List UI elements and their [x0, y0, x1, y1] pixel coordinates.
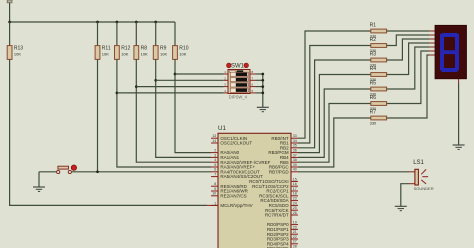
7-segment display showing 8	[435, 25, 467, 79]
wire R9 column to RA pin	[156, 59, 211, 157]
display left pin stubs	[430, 31, 436, 55]
svg-text:R11: R11	[102, 46, 111, 52]
SW1 left pins 1-4	[224, 70, 228, 93]
svg-text:4: 4	[214, 158, 216, 162]
svg-text:10K: 10K	[141, 52, 148, 57]
ground button	[33, 172, 45, 192]
svg-text:25: 25	[293, 206, 297, 210]
switch SW1 label and indicators	[227, 63, 249, 70]
svg-text:6: 6	[214, 168, 216, 172]
svg-text:28: 28	[293, 245, 297, 248]
wire RB2 to R3	[298, 60, 371, 148]
svg-text:R6: R6	[370, 95, 377, 101]
wire RB7 to sounder	[298, 171, 409, 173]
resistor R2 330	[370, 37, 387, 53]
svg-text:R8: R8	[141, 46, 148, 52]
svg-text:R5: R5	[370, 81, 377, 87]
svg-text:35: 35	[293, 144, 297, 148]
svg-text:22: 22	[293, 235, 297, 239]
wire R6 to display pin	[387, 51, 430, 104]
sounder pin stubs	[409, 171, 415, 173]
svg-text:R12: R12	[121, 46, 130, 52]
wire RB6 to R7	[298, 118, 371, 167]
svg-text:R1: R1	[370, 23, 377, 29]
svg-text:10K: 10K	[102, 52, 109, 57]
wire button left to ground	[39, 171, 56, 173]
microcontroller U1 PIC16F877A body	[218, 133, 291, 248]
svg-text:33: 33	[293, 134, 297, 138]
U1 MCLR pin stub	[207, 204, 218, 206]
node junction R10/SW1	[174, 73, 177, 76]
node rail junction at R12	[116, 21, 119, 24]
wire R8 column to RA pin	[136, 59, 211, 162]
wire sounder to ground	[401, 184, 409, 207]
power terminal VCC (cropped at top)	[7, 0, 12, 3]
wire SW1 common rail	[261, 73, 264, 108]
svg-text:R13: R13	[14, 46, 23, 52]
wire R4 to display pin	[387, 43, 430, 75]
U1 left pin stubs and numbers	[211, 134, 218, 205]
wire SW1 row to R12 column	[117, 92, 224, 94]
resistor R11 10K	[95, 22, 111, 59]
resistor R1 330	[370, 23, 387, 39]
svg-text:17: 17	[293, 187, 297, 191]
U1 left pin names	[220, 136, 270, 208]
node junction R8/SW1	[135, 85, 138, 88]
wire R7 to display pin	[387, 55, 430, 118]
svg-text:R9: R9	[160, 46, 167, 52]
svg-text:R7: R7	[370, 110, 377, 116]
SW1 right pins 8-5	[250, 70, 263, 93]
resistor R12 10K	[115, 22, 131, 59]
svg-text:R2: R2	[370, 37, 377, 43]
wire RB3 to R4	[298, 75, 371, 153]
svg-text:OSC2/CLKOUT: OSC2/CLKOUT	[220, 141, 252, 146]
svg-text:24: 24	[293, 201, 297, 205]
svg-text:SW1: SW1	[231, 64, 245, 70]
svg-text:18: 18	[293, 192, 297, 196]
dip switch SW1 DIPSW_4	[228, 70, 250, 100]
resistor R10 10K	[173, 22, 189, 59]
svg-text:13: 13	[212, 134, 216, 138]
display common pin stub	[458, 79, 460, 83]
wire SW1 row to R9 column	[156, 79, 224, 81]
svg-text:15: 15	[293, 177, 297, 181]
svg-text:36: 36	[293, 149, 297, 153]
U1 right pin names	[249, 136, 289, 248]
wire RB4 to R5	[298, 89, 371, 157]
wire R3 to display pin	[387, 39, 430, 60]
svg-text:R10: R10	[179, 46, 188, 52]
wire SW1 row to R8 column	[136, 86, 224, 88]
resistor R8 10K	[134, 22, 148, 59]
svg-text:1: 1	[214, 201, 216, 205]
svg-text:R3: R3	[370, 52, 377, 58]
svg-text:RE2/AN7/CS: RE2/AN7/CS	[220, 193, 246, 198]
wire R11 column down	[97, 59, 99, 171]
node junction button/R11	[96, 170, 99, 173]
resistor R9 10K	[153, 22, 167, 59]
sounder LS1	[413, 160, 434, 191]
wire button to RA4	[72, 171, 211, 173]
wire R5 to display pin	[387, 47, 430, 89]
wire SW1 row to R10 column	[175, 73, 224, 75]
ground sounder	[395, 206, 407, 210]
wire R12 column to RA pin	[117, 59, 211, 167]
svg-text:38: 38	[293, 158, 297, 162]
svg-text:10K: 10K	[14, 52, 21, 57]
wire RB0 to R1	[298, 31, 371, 138]
wire VCC rail	[10, 21, 175, 23]
svg-text:34: 34	[293, 139, 297, 143]
svg-text:16: 16	[293, 182, 297, 186]
svg-text:SOUNDER: SOUNDER	[414, 186, 434, 191]
resistor R13 10K	[7, 22, 23, 59]
resistor R7 330	[370, 110, 387, 126]
resistor R5 330	[370, 81, 387, 97]
node rail junction at R11	[96, 21, 99, 24]
svg-text:330: 330	[370, 120, 377, 125]
svg-text:9: 9	[214, 187, 216, 191]
wire R2 to display pin	[387, 35, 430, 46]
node rail junction at R13	[8, 21, 11, 24]
svg-text:39: 39	[293, 163, 297, 167]
resistor R6 330	[370, 95, 387, 111]
svg-text:37: 37	[293, 153, 297, 157]
resistor R3 330	[370, 52, 387, 68]
svg-text:U1: U1	[218, 125, 226, 132]
svg-text:10K: 10K	[121, 52, 128, 57]
svg-text:21: 21	[293, 230, 297, 234]
svg-text:23: 23	[293, 197, 297, 201]
svg-text:2: 2	[214, 149, 216, 153]
svg-text:3: 3	[214, 153, 216, 157]
svg-text:14: 14	[212, 139, 216, 143]
svg-text:10K: 10K	[160, 52, 167, 57]
node rail junction at R8	[135, 21, 138, 24]
wire RB5 to R6	[298, 104, 371, 163]
wire R13 to MCLR (down and along bottom)	[10, 59, 207, 205]
ground display common	[453, 83, 465, 149]
wire power to rail	[9, 3, 11, 22]
svg-text:RB7/PGD: RB7/PGD	[269, 169, 290, 174]
wire R10 column to RA pin	[175, 59, 211, 152]
node rail junction at R9	[154, 21, 157, 24]
svg-text:7: 7	[214, 173, 216, 177]
push button (reset)	[57, 165, 77, 174]
wire RB1 to R2	[298, 46, 371, 144]
svg-text:MCLR/Vpp/THV: MCLR/Vpp/THV	[220, 203, 252, 208]
U1 right pin stubs and numbers	[291, 134, 298, 248]
resistor R4 330	[370, 66, 387, 82]
node junction R9/SW1	[154, 79, 157, 82]
svg-text:DIPSW_4: DIPSW_4	[229, 95, 248, 100]
svg-text:40: 40	[293, 168, 297, 172]
svg-text:5: 5	[214, 163, 216, 167]
svg-text:27: 27	[293, 240, 297, 244]
wire R1 to display pin	[387, 30, 430, 32]
ground SW1	[257, 107, 269, 111]
svg-text:10K: 10K	[179, 52, 186, 57]
svg-text:20: 20	[293, 225, 297, 229]
svg-text:8: 8	[214, 182, 216, 186]
svg-text:10: 10	[212, 192, 216, 196]
svg-text:R4: R4	[370, 66, 377, 72]
svg-text:19: 19	[293, 221, 297, 225]
svg-text:RC7/RX/DT: RC7/RX/DT	[265, 213, 289, 218]
svg-text:LS1: LS1	[413, 160, 424, 166]
node junction R12/SW1	[116, 92, 119, 95]
svg-text:26: 26	[293, 211, 297, 215]
